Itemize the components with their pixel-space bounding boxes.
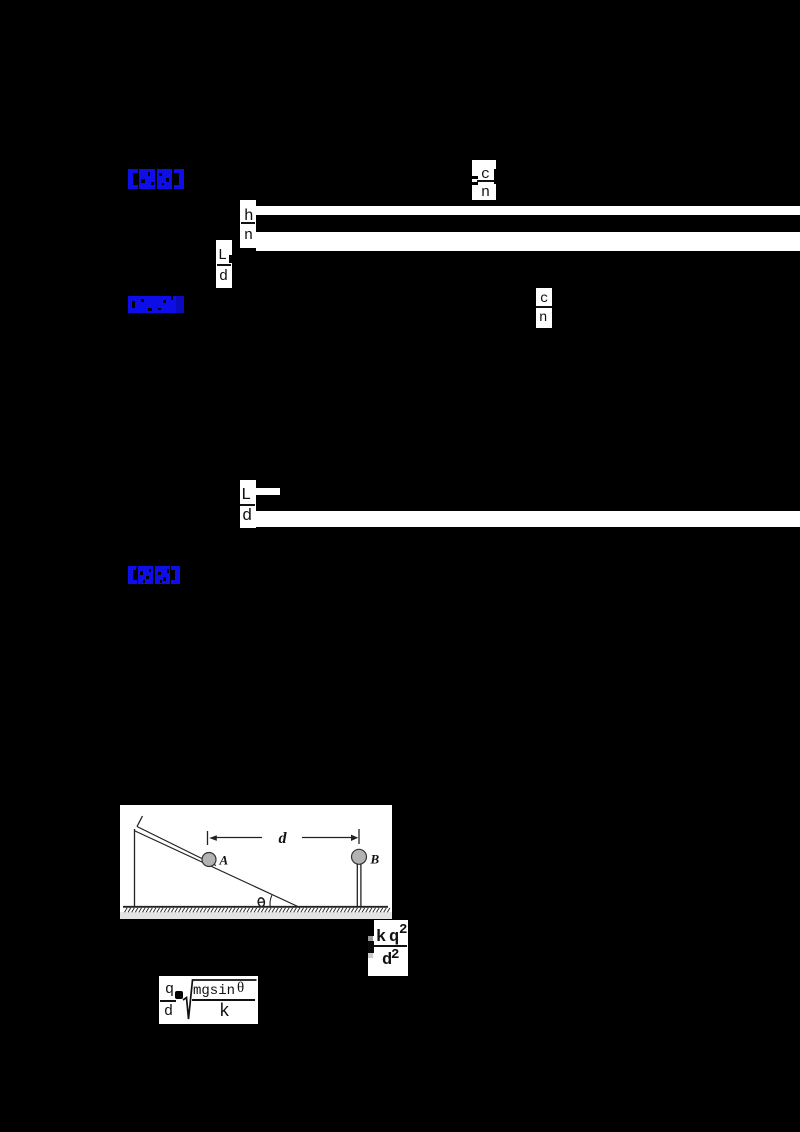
white highlight bar B bbox=[256, 232, 800, 251]
formula image: = kq^2/d^2 bbox=[368, 920, 408, 976]
pale ground strip bbox=[120, 912, 392, 919]
plank end cap stub bbox=[137, 816, 143, 827]
radical sign bbox=[181, 977, 259, 1023]
formula image: L/d fraction (second) bbox=[240, 480, 256, 528]
white highlight bar C (short) bbox=[256, 488, 280, 495]
blue label 2 (CJK bracket label) bbox=[127, 295, 185, 314]
d-arrow left tick bbox=[207, 831, 209, 845]
plank lower edge bbox=[134, 831, 300, 908]
ball B bbox=[352, 849, 367, 864]
post under B (double line) bbox=[356, 864, 358, 907]
white highlight bar A bbox=[256, 206, 800, 215]
angle arc bbox=[270, 895, 272, 907]
left vertical support line bbox=[134, 829, 136, 906]
d-arrow right head bbox=[351, 835, 358, 841]
ground hatching bbox=[125, 908, 390, 912]
svg-text:A: A bbox=[219, 853, 229, 868]
white highlight bar D (long) bbox=[256, 511, 800, 527]
d-arrow right segment bbox=[302, 837, 352, 839]
angle theta label bbox=[258, 897, 265, 907]
d-arrow right tick bbox=[358, 829, 360, 844]
formula image: = c/n bbox=[472, 160, 496, 200]
ball A bbox=[202, 853, 216, 867]
diagram white background bbox=[120, 805, 392, 919]
plank upper edge bbox=[137, 827, 216, 866]
svg-text:B: B bbox=[370, 852, 380, 867]
blue label 3 (CJK bracket label) bbox=[127, 564, 185, 585]
formula image: c/n (second) bbox=[536, 288, 552, 328]
formula image: q/d . sqrt(mgsin(theta)/k) bbox=[159, 976, 258, 1024]
d-arrow left head bbox=[209, 835, 217, 841]
ground line bbox=[123, 906, 388, 908]
formula image: L,/d fraction bbox=[216, 240, 232, 288]
d-arrow left segment bbox=[216, 837, 262, 839]
formula image: h/n fraction bbox=[240, 200, 256, 248]
blue label 1 (CJK bracket label) bbox=[127, 167, 185, 189]
svg-text:d: d bbox=[279, 830, 288, 847]
physics diagram: incline with charged balls A and B bbox=[120, 805, 392, 919]
